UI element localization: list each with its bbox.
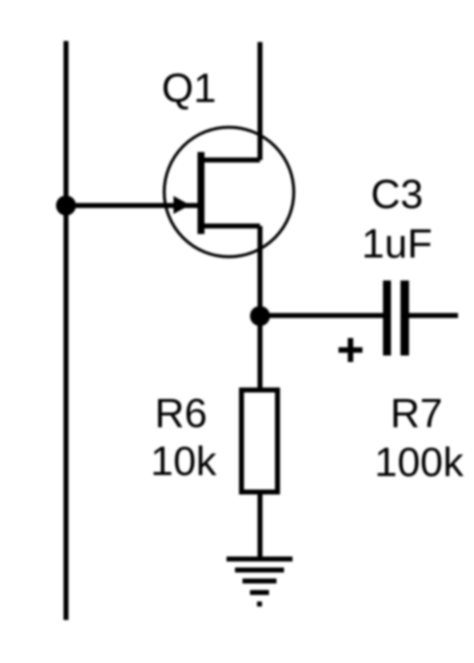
svg-text:Q1: Q1 xyxy=(162,65,217,111)
wire drain vertical xyxy=(258,42,263,160)
svg-text:10k: 10k xyxy=(150,438,217,484)
svg-text:R6: R6 xyxy=(155,390,207,436)
wire capacitor to right xyxy=(409,313,458,318)
wire gate horizontal xyxy=(66,203,198,208)
resistor R6 xyxy=(242,390,278,492)
svg-text:C3: C3 xyxy=(371,171,423,217)
node A junction dot xyxy=(56,196,76,216)
ground xyxy=(227,559,293,604)
transistor Q1 xyxy=(164,127,294,257)
polarity + xyxy=(339,338,363,362)
svg-text:1uF: 1uF xyxy=(362,221,433,267)
svg-text:100k: 100k xyxy=(375,439,464,485)
svg-text:R7: R7 xyxy=(390,390,442,436)
capacitor C3 xyxy=(383,281,409,356)
wire node to capacitor xyxy=(260,313,383,318)
wire left vertical rail xyxy=(64,41,69,620)
wire resistor to ground xyxy=(258,494,263,558)
wire source vertical to node xyxy=(258,226,263,388)
node B junction dot xyxy=(250,306,270,326)
